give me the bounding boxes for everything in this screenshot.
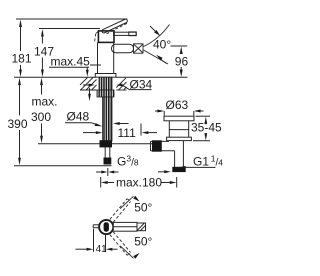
dimension max.45 (49, 55, 101, 77)
dimension 390 (8, 78, 28, 166)
deck bottom lines (80, 89, 97, 91)
dimension 147 (34, 29, 54, 77)
svg-text:41: 41 (96, 244, 108, 255)
svg-text:390: 390 (8, 117, 28, 131)
outlet nut (153, 141, 162, 151)
hose end reference line (14, 165, 112, 167)
arc arrow lower (120, 246, 139, 259)
angle arrow lower (156, 55, 166, 64)
hose centerline tick and arrows (96, 168, 119, 176)
leader arrow at nut (88, 88, 91, 101)
dimension 96 (175, 47, 189, 78)
dimension 181 (12, 20, 32, 78)
svg-text:300: 300 (31, 110, 51, 124)
waste leader arrow (158, 170, 171, 173)
dimension 111 (83, 124, 157, 140)
waste lower block (173, 167, 185, 171)
svg-text:max.45: max.45 (51, 55, 91, 69)
waste flange rim (164, 116, 194, 121)
waste outlet (151, 141, 175, 150)
cartridge box (98, 31, 114, 43)
dimension Ø63 (155, 110, 204, 116)
left stub (93, 225, 99, 228)
waste neck (169, 121, 188, 137)
dimension max.300 (31, 78, 58, 144)
96 extension line (171, 45, 188, 47)
deck hatch right (116, 78, 126, 90)
dimension max.180 (101, 176, 177, 190)
svg-text:111: 111 (118, 126, 137, 140)
elbow block (100, 141, 112, 147)
dimension 41 (76, 229, 118, 255)
hose below elbow (104, 147, 106, 158)
waste collar (167, 137, 192, 140)
svg-text:96: 96 (175, 55, 189, 69)
angle arrow upper (150, 26, 160, 36)
svg-text:181: 181 (12, 52, 32, 66)
dimension 147 top reference line (39, 28, 100, 30)
waste tube (175, 141, 184, 168)
mounting nut (97, 90, 114, 97)
body circle (99, 220, 113, 234)
horizontal lever (114, 32, 137, 35)
supply shank tube (103, 97, 113, 141)
shank Ø34 (99, 77, 112, 90)
pop-up rod line (38, 143, 158, 145)
arc arrow upper (120, 196, 139, 209)
svg-text:max.: max. (32, 95, 58, 109)
dimension Ø34 arrows (83, 84, 152, 90)
svg-text:50°: 50° (134, 235, 152, 249)
spout (112, 44, 134, 52)
lever top view (113, 222, 145, 231)
G3/8 fitting (104, 158, 111, 164)
deck hatch left (80, 78, 97, 91)
dashed lever edge (107, 23, 128, 34)
svg-text:40°: 40° (153, 38, 171, 52)
svg-text:35-45: 35-45 (191, 121, 222, 135)
svg-text:Ø63: Ø63 (166, 98, 189, 112)
spray ray upper (144, 25, 170, 47)
base skirt (95, 74, 116, 78)
svg-text:Ø48: Ø48 (67, 110, 90, 124)
dashed lever upper (110, 199, 131, 223)
spray ray lower (144, 50, 169, 64)
dimension 181 top reference line (16, 18, 127, 20)
lever slot (104, 223, 108, 232)
svg-text:50°: 50° (134, 201, 152, 215)
raised lever (101, 19, 127, 34)
dimension 35-45 (191, 116, 222, 141)
deck line (14, 76, 95, 78)
svg-text:max.180: max.180 (116, 176, 162, 190)
dashed lever lower (110, 232, 131, 256)
svg-text:Ø34: Ø34 (130, 77, 153, 91)
mousseur (134, 44, 144, 53)
Ø48 leader (65, 122, 129, 126)
faucet body (97, 42, 99, 73)
